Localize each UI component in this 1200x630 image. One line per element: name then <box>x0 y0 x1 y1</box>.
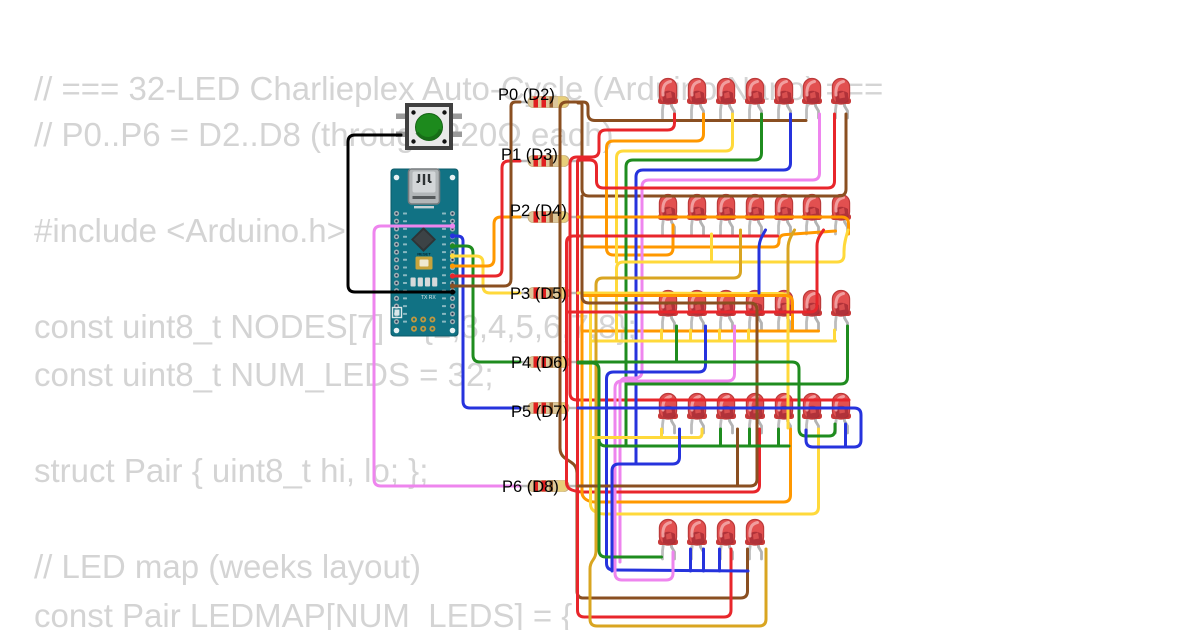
LED26 red <box>774 394 794 434</box>
wire P3 yellow to row4 LED6 <box>578 293 819 514</box>
svg-text:P3 (D5): P3 (D5) <box>510 285 567 303</box>
svg-text:const uint8_t NODES[7] = {2,: const uint8_t NODES[7] = {2,3,4,5,6,7,8}… <box>34 308 637 345</box>
wire row2 LED7-left orange <box>582 231 836 247</box>
background source code text <box>34 70 883 630</box>
wire row2 LED3 gold <box>590 230 766 626</box>
wire row1 LED4 green <box>626 114 762 446</box>
LED21 red <box>831 291 851 331</box>
wire row3 LED3 violet <box>615 326 735 580</box>
wire row1 LED3 yellow <box>617 114 733 262</box>
pin net labels <box>498 86 568 496</box>
svg-text:P4 (D6): P4 (D6) <box>511 354 568 372</box>
wire P4 to row4 green bus <box>578 363 789 446</box>
LED29 red <box>658 520 678 560</box>
wire row4 yellow bus <box>591 429 703 438</box>
wire row4 left-leg green stub3 <box>777 429 780 446</box>
wire row4 left-leg green stub1 <box>719 429 722 446</box>
svg-text:// LED map (weeks layout): // LED map (weeks layout) <box>34 548 421 585</box>
svg-text:P5 (D7): P5 (D7) <box>511 403 568 421</box>
LED27 red <box>802 394 822 434</box>
wire row2 LED4 blue <box>759 230 766 293</box>
wire row1 LED6 violet <box>620 114 820 562</box>
wire row3 left-leg yellow stub5 <box>833 330 836 341</box>
wire row3 left-leg yellow stub3 <box>718 330 721 341</box>
wire row1 LED2 orange <box>607 114 704 255</box>
LED31 red <box>716 520 736 560</box>
wire P5 blue bus <box>578 408 861 447</box>
wire P2 orange to row4 LED5 <box>578 217 791 502</box>
pushbutton SW1 <box>396 105 462 148</box>
wire row2 LED5 gold <box>788 230 795 293</box>
wire row2 left-leg bus red <box>567 236 778 492</box>
resistor R2 220ohm (P1) <box>514 156 581 167</box>
LED9 red <box>687 195 707 235</box>
wire D6 to P4 (green) <box>452 246 520 362</box>
wire row3 right-leg orange bus <box>582 330 819 333</box>
wire row1 LED1 red <box>570 114 849 400</box>
wire row3 LED2 blue <box>607 326 749 571</box>
wire row3 left-leg yellow bus <box>591 340 836 343</box>
resistor R7 220ohm (P6) <box>514 481 581 492</box>
wire row2 LED6 red <box>567 230 824 312</box>
LED16 red <box>687 291 707 331</box>
wire row3 LED1 green stub <box>675 326 678 362</box>
svg-text:#include <Arduino.h>: #include <Arduino.h> <box>34 212 346 249</box>
wire row4 LED1 yellow stub <box>660 429 663 438</box>
wire P0 row1 bus brown <box>578 102 806 121</box>
wire row1 LED5 blue <box>636 114 791 464</box>
svg-text:P6 (D8): P6 (D8) <box>502 478 559 496</box>
wire D5 to P3 (yellow) <box>452 256 520 293</box>
wire P2 orange mid bus <box>582 296 793 332</box>
LED7 red <box>831 79 851 119</box>
LED20 red <box>802 291 822 331</box>
wire row5 LED1 green <box>599 440 662 557</box>
wire P0 trunk brown <box>560 102 748 598</box>
wire P1 to row1 LED7 red <box>578 114 835 188</box>
wire row5 LED2 left blue stub <box>689 549 692 571</box>
wire row3 LED7 green <box>626 326 848 384</box>
LED15 red <box>658 291 678 331</box>
wire P6 brown loop <box>578 196 757 486</box>
svg-text:struct Pair { uint8_t hi, lo;: struct Pair { uint8_t hi, lo; }; <box>34 452 428 489</box>
wire row4 LED1 blue <box>612 429 680 571</box>
wire row4 left-leg green stub2 <box>748 429 751 446</box>
wire D7 to P5 (blue) <box>452 236 520 408</box>
LED3 red <box>716 79 736 119</box>
LED25 red <box>745 394 765 434</box>
LED13 red <box>802 195 822 235</box>
LED11 red <box>745 195 765 235</box>
wire row3 left-leg yellow stub1 <box>660 330 663 341</box>
LED30 red <box>687 520 707 560</box>
resistor R3 220ohm (P2) <box>514 212 581 223</box>
wire row2 LED7 yellow <box>617 230 849 341</box>
wire row5 LED2 right blue stub <box>702 549 705 571</box>
resistor R1 220ohm (P0) <box>514 97 581 108</box>
LED24 red <box>716 394 736 434</box>
wire P4 green bus <box>578 362 835 436</box>
resistor R4 220ohm (P3) <box>514 288 581 299</box>
wire row5 LED3 left blue stub <box>718 549 721 571</box>
wire P3 yellow to row4 LED5 <box>578 293 788 428</box>
wire D4 to P2 (orange) <box>452 217 520 266</box>
svg-text:const uint8_t NUM_LEDS = 32;: const uint8_t NUM_LEDS = 32; <box>34 356 494 393</box>
wire row4 LED7 blue stub <box>844 424 847 447</box>
LED32 red <box>745 520 765 560</box>
LED12 red <box>774 195 794 235</box>
wire endpoint dots <box>450 223 455 294</box>
wire D3 to P1 (red) <box>452 161 520 276</box>
wire P2 orange bus <box>578 217 849 234</box>
svg-text:P2 (D4): P2 (D4) <box>510 202 567 220</box>
wire row2 LED2 yellow stub <box>710 234 713 262</box>
wire P1 red trunk <box>578 161 732 617</box>
svg-text:const Pair LEDMAP[NUM_LEDS] =: const Pair LEDMAP[NUM_LEDS] = { <box>34 597 572 630</box>
LED1 red <box>658 79 678 119</box>
wire row3 left-leg yellow stub4 <box>747 330 750 341</box>
wire row3 left-leg yellow stub2 <box>689 330 692 341</box>
LED2 red <box>687 79 707 119</box>
LED4 red <box>745 79 765 119</box>
LED17 red <box>716 291 736 331</box>
LED14 red <box>831 195 851 235</box>
resistor R5 220ohm (P4) <box>514 357 581 368</box>
LED5 red <box>774 79 794 119</box>
LED28 red <box>831 394 851 434</box>
LED19 red <box>774 291 794 331</box>
wire row4 LED3 brown stub <box>736 429 739 486</box>
LED18 red <box>745 291 765 331</box>
wire row2 top bus brown <box>578 103 846 196</box>
svg-text:RESET: RESET <box>417 252 431 257</box>
resistor R6 220ohm (P5) <box>514 403 581 414</box>
LED8 red <box>658 195 678 235</box>
svg-text:TX RX: TX RX <box>421 295 436 301</box>
wire D8 to P6 (magenta) <box>374 226 520 486</box>
svg-text:P0 (D2): P0 (D2) <box>498 86 555 104</box>
wire button to GND (black) <box>348 135 454 292</box>
LED23 red <box>687 394 707 434</box>
LED22 red <box>658 394 678 434</box>
wire D2 to P0 (brown) <box>452 102 520 286</box>
LED6 red <box>802 79 822 119</box>
svg-text:P1 (D3): P1 (D3) <box>501 146 558 164</box>
Arduino Nano U1 <box>391 169 458 336</box>
LED10 red <box>716 195 736 235</box>
